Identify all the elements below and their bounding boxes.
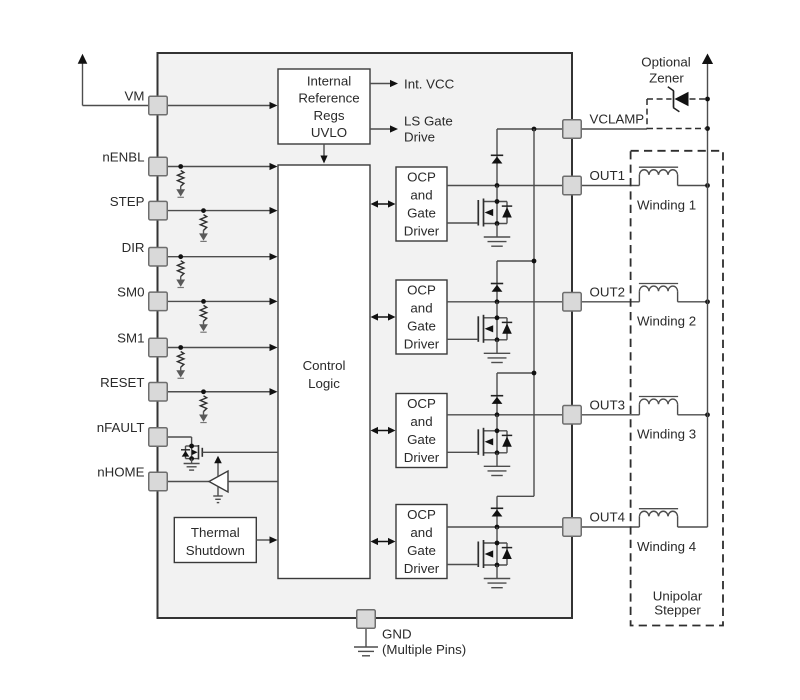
svg-text:Gate: Gate <box>407 543 436 558</box>
svg-text:OUT4: OUT4 <box>590 510 625 525</box>
svg-text:OCP: OCP <box>407 507 436 522</box>
svg-text:OCP: OCP <box>407 170 436 185</box>
svg-text:RESET: RESET <box>100 375 144 390</box>
svg-text:nENBL: nENBL <box>102 150 144 165</box>
svg-text:nHOME: nHOME <box>97 465 144 480</box>
svg-text:Int. VCC: Int. VCC <box>404 76 455 91</box>
svg-text:GND: GND <box>382 626 412 641</box>
svg-text:and: and <box>410 301 432 316</box>
svg-text:SM0: SM0 <box>117 285 144 300</box>
svg-text:OUT1: OUT1 <box>590 168 625 183</box>
svg-text:Driver: Driver <box>404 561 440 576</box>
svg-text:Shutdown: Shutdown <box>186 543 245 558</box>
svg-text:Unipolar: Unipolar <box>653 588 703 603</box>
svg-text:Winding 2: Winding 2 <box>637 314 696 329</box>
svg-text:Gate: Gate <box>407 319 436 334</box>
svg-text:Winding 4: Winding 4 <box>637 539 696 554</box>
svg-text:Zener: Zener <box>649 70 684 85</box>
svg-text:STEP: STEP <box>110 194 145 209</box>
svg-text:OCP: OCP <box>407 396 436 411</box>
svg-text:Winding 3: Winding 3 <box>637 427 696 442</box>
svg-text:VCLAMP: VCLAMP <box>590 112 645 127</box>
svg-text:Gate: Gate <box>407 206 436 221</box>
svg-text:LS Gate: LS Gate <box>404 113 453 128</box>
svg-text:Drive: Drive <box>404 129 435 144</box>
svg-text:Internal: Internal <box>307 74 351 89</box>
svg-text:OCP: OCP <box>407 283 436 298</box>
svg-text:and: and <box>410 525 432 540</box>
svg-text:Driver: Driver <box>404 337 440 352</box>
svg-text:Thermal: Thermal <box>191 525 240 540</box>
svg-text:VM: VM <box>125 89 145 104</box>
svg-text:OUT2: OUT2 <box>590 284 625 299</box>
svg-text:Gate: Gate <box>407 432 436 447</box>
svg-text:Logic: Logic <box>308 376 340 391</box>
svg-text:Regs: Regs <box>313 108 344 123</box>
svg-text:and: and <box>410 414 432 429</box>
svg-text:Driver: Driver <box>404 450 440 465</box>
svg-text:DIR: DIR <box>122 240 145 255</box>
svg-text:SM1: SM1 <box>117 331 144 346</box>
svg-text:Stepper: Stepper <box>654 602 701 617</box>
svg-text:nFAULT: nFAULT <box>97 420 145 435</box>
svg-text:Driver: Driver <box>404 224 440 239</box>
svg-text:Optional: Optional <box>641 55 691 70</box>
svg-text:(Multiple Pins): (Multiple Pins) <box>382 642 466 657</box>
svg-text:Control: Control <box>303 358 346 373</box>
svg-text:Winding 1: Winding 1 <box>637 197 696 212</box>
svg-text:and: and <box>410 188 432 203</box>
svg-text:OUT3: OUT3 <box>590 397 625 412</box>
svg-text:UVLO: UVLO <box>311 125 347 140</box>
svg-text:Reference: Reference <box>298 91 359 106</box>
